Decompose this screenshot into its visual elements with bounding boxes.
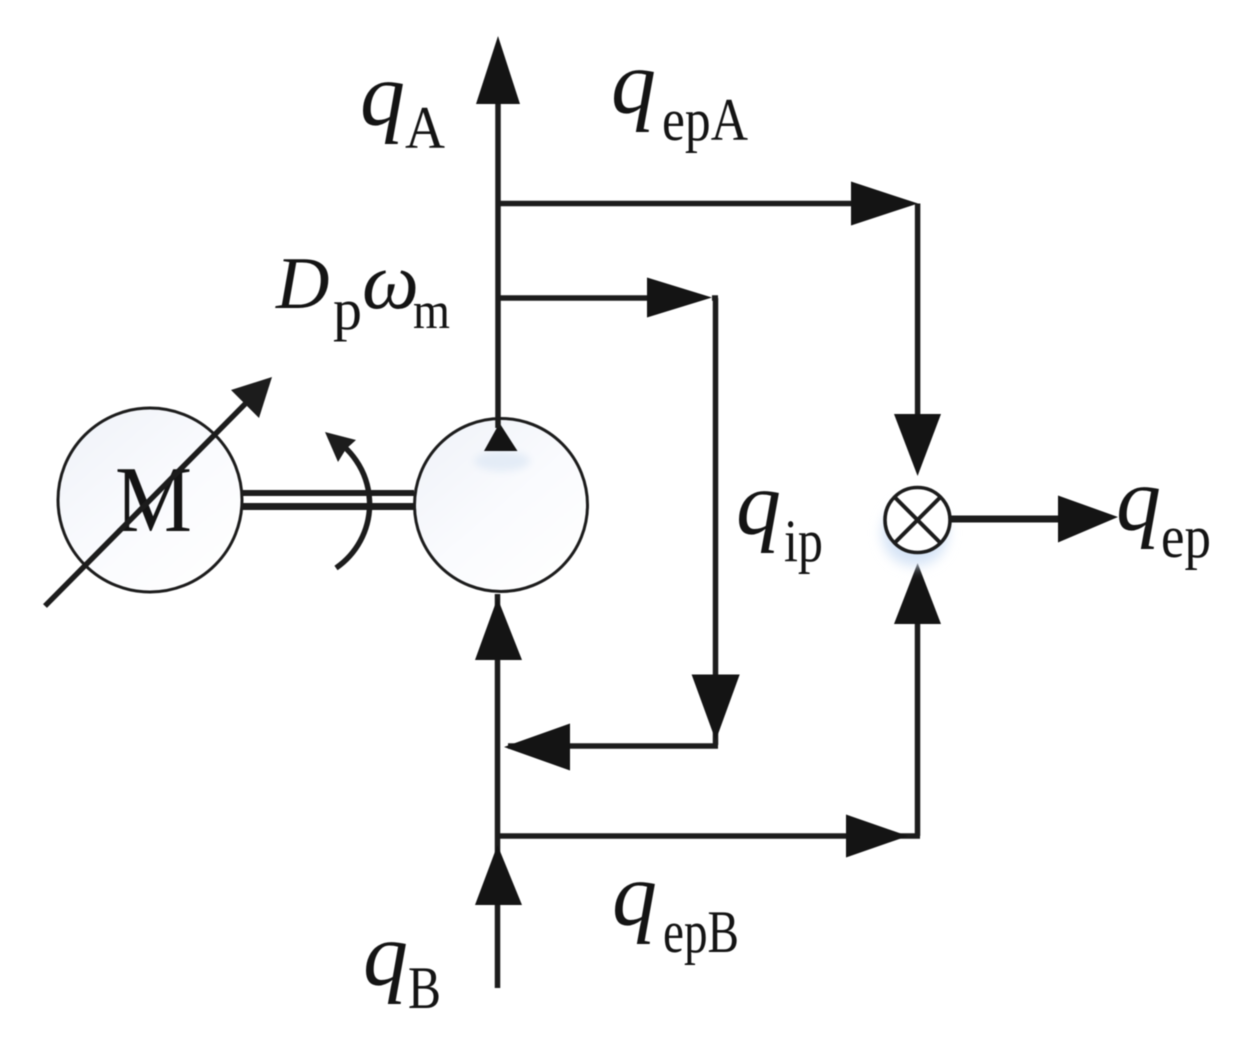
- wire: right lower vertical to junction: [915, 620, 921, 836]
- pump shading smudge: [474, 451, 530, 471]
- svg-text:q: q: [611, 34, 656, 133]
- svg-text:D: D: [275, 243, 329, 325]
- rotation arrow arc: [325, 432, 370, 568]
- wire: D_p w_m horizontal: [498, 295, 652, 301]
- svg-text:A: A: [405, 95, 445, 161]
- arrow: D_p w_m right: [647, 278, 712, 318]
- arrow: down into junction: [894, 414, 941, 476]
- arrow: up below q_epB junction: [475, 845, 522, 905]
- svg-text:q: q: [736, 455, 781, 554]
- label q_ip: [736, 455, 823, 574]
- summing junction circle with X: [885, 488, 950, 553]
- svg-text:B: B: [408, 955, 441, 1021]
- arrow: q_epB right: [846, 815, 908, 858]
- svg-text:ep: ep: [1161, 504, 1211, 570]
- svg-text:p: p: [333, 277, 362, 342]
- label q_B: [363, 906, 441, 1021]
- shaft (double line): [242, 490, 414, 510]
- arrow: q_ip down: [692, 675, 740, 741]
- wire: q_epB horizontal: [498, 833, 920, 839]
- pump P1 circle: [415, 419, 588, 592]
- svg-text:ip: ip: [784, 508, 823, 574]
- variable (adjustable) arrow through motor: [45, 377, 272, 606]
- junction glow: [882, 500, 948, 566]
- svg-text:q: q: [360, 46, 405, 145]
- motor letter M: [115, 448, 192, 552]
- wire: right upper vertical to junction: [915, 204, 921, 421]
- wire: q_ep output horizontal: [951, 516, 1062, 523]
- arrow: q_epA right: [851, 182, 918, 226]
- arrow: up into junction: [894, 563, 941, 624]
- svg-text:epA: epA: [662, 87, 748, 153]
- svg-text:q: q: [612, 846, 657, 945]
- arrow: q_A up: [476, 36, 520, 104]
- svg-text:ω: ω: [362, 238, 419, 326]
- arrow: q_ip return left: [504, 724, 570, 771]
- pump outlet triangle: [484, 423, 518, 451]
- arrow: q_ep right: [1058, 496, 1118, 543]
- motor M1 circle: [58, 408, 242, 592]
- label q_ep: [1116, 451, 1211, 570]
- wire: pump bottom vertical (q_B): [495, 594, 501, 988]
- label q_epA: [611, 34, 748, 153]
- label q_epB: [612, 846, 739, 965]
- label D_p w_m: [275, 238, 450, 342]
- svg-text:epB: epB: [663, 899, 739, 965]
- svg-text:q: q: [1116, 451, 1161, 550]
- svg-text:m: m: [413, 283, 450, 340]
- wire: q_epA horizontal: [498, 201, 856, 207]
- label q_A: [360, 46, 445, 161]
- wire: q_ip vertical down: [712, 298, 718, 745]
- wire: q_ip return horizontal: [508, 743, 718, 749]
- wire: pump outlet vertical (q_A): [495, 100, 501, 428]
- arrow: up into pump: [475, 598, 522, 660]
- svg-text:q: q: [363, 906, 408, 1005]
